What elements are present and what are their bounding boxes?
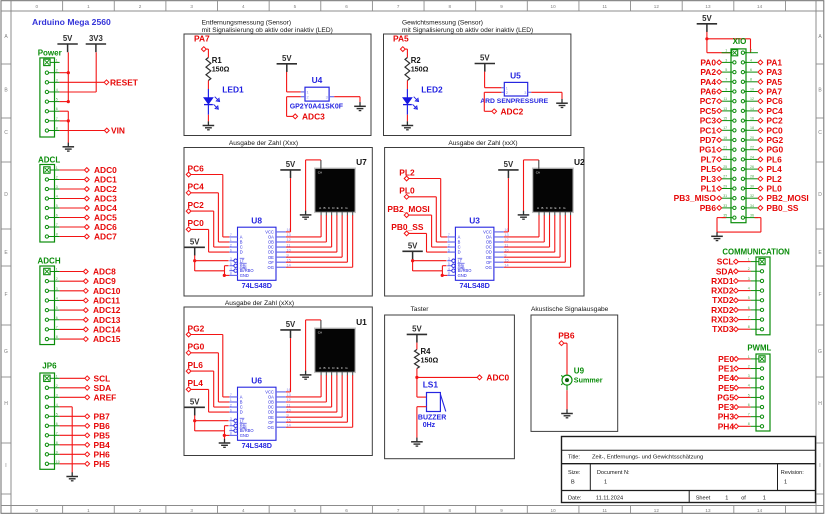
svg-text:13: 13 [723, 107, 727, 111]
node PL6 [758, 154, 782, 164]
wire node ADC11 [60, 299, 84, 301]
svg-text:PA1: PA1 [766, 57, 782, 67]
svg-text:5V: 5V [190, 397, 200, 406]
svg-text:5V: 5V [282, 54, 292, 63]
svg-text:PL0: PL0 [766, 184, 782, 194]
wire 3V3 to Power pin4 [60, 52, 97, 92]
svg-text:7: 7 [397, 508, 400, 513]
svg-text:5: 5 [725, 68, 727, 72]
svg-text:GND: GND [458, 273, 467, 278]
svg-text:6: 6 [230, 248, 232, 252]
wire U3 OD to U2 segment D [504, 215, 555, 252]
connector XIO pin 2 [741, 49, 758, 55]
svg-text:ADC6: ADC6 [94, 222, 117, 232]
connector ADCH pin 4 [45, 296, 59, 302]
connector XIO pin 18 [741, 126, 758, 132]
connector ADCH pin 2 [45, 277, 59, 283]
connector XIO pin 33 [722, 204, 736, 210]
svg-text:SCL: SCL [94, 373, 111, 383]
svg-text:11: 11 [602, 4, 607, 9]
ground (JP6) [66, 472, 78, 481]
svg-text:PC3: PC3 [700, 116, 717, 126]
wire node VIN [60, 130, 105, 132]
svg-text:PB2_MOSI: PB2_MOSI [766, 193, 808, 203]
svg-text:4: 4 [230, 427, 232, 431]
connector Power pin 4 [45, 88, 59, 94]
connector XIO pin 28 [741, 175, 758, 181]
wire U5 pin2 to ADC2 [484, 92, 501, 111]
junction U8 LT [193, 259, 196, 262]
wire JP6 pin4 to ground [60, 407, 73, 473]
svg-text:PL4: PL4 [188, 378, 204, 388]
svg-text:15: 15 [723, 117, 727, 121]
svg-text:3: 3 [56, 185, 58, 189]
svg-text:C: C [818, 130, 822, 136]
svg-text:2: 2 [56, 384, 58, 388]
wire LS1 bottom to ground [417, 407, 427, 438]
section heading Ausgabe der Zahl (xXx) [225, 300, 294, 307]
wire node ADC6 [60, 226, 85, 228]
connector XIO pin 34 [741, 204, 758, 210]
node PH4 (PWML) [718, 421, 739, 431]
svg-text:PG2: PG2 [188, 323, 205, 333]
connector ADCH pin 8 [45, 335, 59, 341]
connector COMMUNICATION pin 4 [748, 286, 764, 292]
power symbol 5V (U3 LT/RBI) [402, 241, 422, 259]
node PL2 [399, 167, 415, 181]
node PC1 [700, 125, 722, 135]
node PG0 [186, 342, 204, 356]
svg-text:TXD2: TXD2 [712, 295, 734, 305]
connector XIO pin 23 [722, 155, 736, 161]
connector JP6 pin 5 [45, 412, 59, 418]
svg-text:4: 4 [56, 88, 58, 92]
connector XIO pin 15 [722, 117, 736, 123]
svg-text:PE1: PE1 [718, 364, 734, 374]
svg-text:PL6: PL6 [188, 360, 204, 370]
wire U7 CA to ground [306, 160, 321, 211]
node ADC0 [84, 165, 117, 175]
node ADC2 [84, 184, 117, 194]
svg-text:1: 1 [725, 49, 727, 53]
wire node PB4 [60, 444, 85, 446]
svg-text:8: 8 [56, 335, 58, 339]
svg-text:R1: R1 [212, 56, 223, 65]
junction Power pin2 [67, 71, 70, 74]
ground (LED2) [402, 121, 414, 130]
svg-text:ADCH: ADCH [38, 257, 61, 266]
wire U1 CA to ground [306, 320, 321, 371]
connector ADCL pin 2 [45, 176, 59, 182]
svg-text:2: 2 [56, 277, 58, 281]
wire node PH6 [60, 453, 85, 455]
node ADC2 [492, 106, 524, 116]
node PC3 [700, 116, 722, 126]
svg-text:ADC3: ADC3 [302, 112, 325, 122]
wire node PH5 [60, 463, 85, 465]
node PB6 [558, 330, 575, 345]
svg-text:Ausgabe der Zahl (xXx): Ausgabe der Zahl (xXx) [225, 300, 294, 307]
wire Power pin6 [60, 110, 69, 112]
ground (U6) [219, 439, 231, 448]
svg-text:PC4: PC4 [188, 182, 205, 192]
node PC4 [758, 106, 783, 116]
svg-text:H: H [4, 401, 8, 407]
svg-text:PB0_SS: PB0_SS [766, 203, 799, 213]
7-segment display U7 [315, 157, 368, 215]
svg-text:8: 8 [56, 233, 58, 237]
node PB3_MISO [674, 193, 722, 203]
connector XIO pin 21 [722, 146, 736, 152]
svg-text:PC7: PC7 [700, 96, 717, 106]
svg-text:ADC8: ADC8 [93, 267, 116, 277]
connector JP6 [40, 362, 57, 470]
section box Akustische Signalausgabe [531, 315, 618, 431]
node RXD3 (COMMUNICATION) [711, 315, 738, 325]
svg-text:6: 6 [748, 403, 750, 407]
wire Power pin5 to 5V [60, 101, 69, 103]
svg-text:8: 8 [230, 432, 232, 436]
svg-text:PE5: PE5 [718, 383, 734, 393]
node PA5 [393, 34, 409, 52]
svg-text:74LS48D: 74LS48D [242, 441, 272, 450]
svg-text:PL2: PL2 [399, 167, 415, 177]
svg-text:F: F [341, 366, 343, 370]
svg-text:Arduino Mega 2560: Arduino Mega 2560 [32, 17, 111, 27]
svg-text:2: 2 [230, 403, 232, 407]
svg-text:2: 2 [748, 364, 750, 368]
wire U6 OE to U1 segment E [286, 375, 342, 417]
wire U6 OF to U1 segment F [286, 375, 348, 422]
svg-text:2: 2 [56, 69, 58, 73]
ground (LS1) [411, 438, 423, 447]
svg-text:PC1: PC1 [700, 125, 717, 135]
svg-text:B: B [571, 479, 575, 485]
node PA6 [700, 87, 721, 97]
wire R1 to LED1 [207, 81, 209, 90]
svg-text:BUZZER: BUZZER [418, 415, 446, 422]
svg-text:PB7: PB7 [94, 411, 111, 421]
connector JP6 pin 1 [44, 374, 60, 381]
connector ADCL pin 1 [44, 166, 60, 173]
connector Power pin 6 [45, 107, 59, 113]
connector XIO pin 7 [722, 78, 736, 84]
connector XIO pin 10 [741, 87, 758, 93]
svg-text:5: 5 [748, 393, 750, 397]
node PL7 [701, 154, 722, 164]
power symbol 5V (U6 LT/RBI) [185, 397, 205, 415]
svg-text:C: C [4, 130, 8, 136]
node SCL (COMMUNICATION) [717, 257, 739, 267]
wire node SDA (COMMUNICATION) [738, 270, 750, 272]
section heading Gewichtsmessung [402, 20, 533, 35]
svg-text:4: 4 [750, 58, 752, 62]
wire node PE0 (PWML) [739, 358, 751, 360]
connector XIO pin 1 [722, 49, 738, 56]
connector Power pin 2 [45, 69, 59, 75]
svg-text:PL7: PL7 [701, 154, 717, 164]
node PH3 (PWML) [718, 412, 739, 422]
svg-text:5: 5 [230, 422, 232, 426]
connector XIO pin 9 [722, 87, 736, 93]
node SDA [85, 383, 111, 393]
svg-text:PG2: PG2 [766, 135, 783, 145]
svg-text:ADC0: ADC0 [94, 165, 117, 175]
svg-text:74LS48D: 74LS48D [242, 281, 272, 290]
svg-text:32: 32 [750, 194, 754, 198]
svg-text:3: 3 [56, 393, 58, 397]
node VIN [104, 126, 125, 136]
connector PWML pin 2 [748, 364, 764, 370]
svg-text:14: 14 [757, 4, 763, 9]
svg-text:G: G [4, 349, 8, 355]
node SCL [85, 373, 110, 383]
wire U3 OB to U2 segment B [504, 215, 544, 242]
connector COMMUNICATION pin 6 [748, 306, 764, 312]
connector XIO pin 8 [741, 78, 758, 84]
svg-text:5: 5 [448, 262, 450, 266]
svg-text:D: D [4, 192, 8, 198]
node RXD2 (COMMUNICATION) [711, 305, 738, 315]
node PC2 [758, 116, 783, 126]
svg-text:GND: GND [240, 433, 249, 438]
node SDA (COMMUNICATION) [716, 266, 738, 276]
svg-text:PA0: PA0 [700, 57, 716, 67]
svg-text:PB4: PB4 [94, 440, 111, 450]
svg-text:RESET: RESET [110, 77, 139, 87]
U4 pin numbers [307, 91, 328, 100]
svg-text:3V3: 3V3 [89, 34, 104, 43]
svg-text:Size:: Size: [568, 470, 581, 476]
connector COMMUNICATION pin 7 [748, 315, 764, 321]
svg-text:PC0: PC0 [766, 125, 783, 135]
wire 5V to U3 RBI/BI [413, 266, 448, 276]
connector PWML pin 8 [748, 422, 764, 428]
node ADC4 [84, 203, 117, 213]
node ADC15 [83, 334, 120, 344]
power symbol 5V (U5) [475, 54, 495, 72]
connector XIO pin 16 [741, 117, 758, 123]
svg-text:Gewichtsmessung (Sensor): Gewichtsmessung (Sensor) [402, 20, 483, 27]
svg-text:ADC11: ADC11 [93, 295, 120, 305]
svg-text:SDA: SDA [716, 266, 734, 276]
wire U4 pin2 to ADC3 [287, 97, 301, 117]
node PE3 (PWML) [718, 402, 738, 412]
svg-text:E: E [337, 206, 339, 210]
node PE0 (PWML) [718, 354, 738, 364]
connector JP6 pin 8 [45, 441, 59, 447]
svg-text:U6: U6 [251, 376, 262, 386]
svg-text:E: E [555, 206, 557, 210]
svg-text:GND: GND [240, 273, 249, 278]
power symbol 3V3 (Power header) [86, 34, 106, 52]
wire U3 OE to U2 segment E [504, 215, 560, 257]
wire U9 to ground [566, 390, 568, 409]
svg-text:PL4: PL4 [766, 164, 782, 174]
svg-text:5V: 5V [63, 34, 73, 43]
wire U8 OE to U7 segment E [286, 215, 342, 257]
connector XIO pin 30 [741, 184, 758, 190]
svg-text:I: I [5, 463, 6, 469]
svg-text:PB2_MOSI: PB2_MOSI [387, 204, 429, 214]
svg-text:B: B [324, 206, 326, 210]
svg-text:20: 20 [750, 136, 754, 140]
node PC2 [186, 200, 204, 214]
node RXD2 (COMMUNICATION) [711, 286, 738, 296]
svg-text:GP2Y0A41SK0F: GP2Y0A41SK0F [290, 103, 344, 110]
connector COMMUNICATION pin 8 [748, 325, 764, 331]
wire node PE5 (PWML) [739, 387, 751, 389]
power symbol 5V (Taster) [407, 324, 427, 342]
svg-text:JP6: JP6 [42, 362, 57, 371]
connector Power [38, 49, 62, 138]
svg-text:PG1: PG1 [699, 145, 716, 155]
svg-text:PC4: PC4 [766, 106, 783, 116]
node PC0 [758, 125, 783, 135]
svg-text:PA6: PA6 [700, 87, 716, 97]
wire node ADC4 [60, 207, 85, 209]
svg-text:5: 5 [748, 296, 750, 300]
svg-text:13: 13 [705, 508, 711, 513]
buzzer U9 Summer [561, 367, 603, 391]
connector XIO pin 13 [722, 107, 736, 113]
connector XIO pin 17 [722, 126, 736, 132]
wire PB2_MOSI to U3 input C [409, 215, 447, 247]
connector ADCH pin 5 [45, 306, 59, 312]
svg-text:2: 2 [750, 49, 752, 53]
svg-text:1: 1 [506, 86, 508, 90]
svg-text:1: 1 [56, 374, 58, 378]
svg-text:ARD SENPRESSURE: ARD SENPRESSURE [480, 98, 548, 105]
svg-text:2: 2 [56, 176, 58, 180]
svg-text:8: 8 [230, 272, 232, 276]
wire R2 to LED2 [406, 81, 408, 90]
node PE4 (PWML) [718, 373, 738, 383]
connector ADCH pin 3 [45, 287, 59, 293]
wire node ADC9 [60, 280, 84, 282]
wire U4 pin3 to ground [334, 97, 360, 103]
wire node ADC7 [60, 236, 85, 238]
svg-text:PC6: PC6 [188, 163, 205, 173]
wire node RXD1 (COMMUNICATION) [738, 280, 750, 282]
svg-text:5V: 5V [286, 320, 296, 329]
svg-text:ADC5: ADC5 [94, 213, 117, 223]
wire U8 OB to U7 segment B [286, 215, 326, 242]
svg-text:3: 3 [56, 287, 58, 291]
svg-text:3: 3 [190, 4, 193, 9]
svg-text:AREF: AREF [94, 392, 117, 402]
connector JP6 pin 9 [45, 450, 59, 456]
connector XIO pin 27 [722, 175, 736, 181]
svg-text:ADC13: ADC13 [93, 315, 121, 325]
svg-text:OG: OG [268, 265, 274, 270]
ground (XIO) [711, 232, 723, 241]
svg-text:PB6: PB6 [558, 330, 575, 340]
node PB5 [85, 430, 110, 440]
wire PL0 to U3 input B [409, 197, 447, 242]
svg-text:6: 6 [345, 508, 348, 513]
wire PC2 to U8 input C [191, 211, 229, 247]
node PB0_SS [758, 203, 799, 213]
svg-text:6: 6 [748, 306, 750, 310]
wire node PB5 [60, 434, 85, 436]
node PG2 [758, 135, 784, 145]
node PG1 [699, 145, 721, 155]
junction U3 GND-row corner [441, 274, 444, 277]
svg-text:Power: Power [38, 49, 62, 58]
power symbol 5V (U4) [277, 54, 297, 72]
section box Ausgabe der Zahl (xxX) [385, 148, 584, 297]
svg-text:3: 3 [190, 508, 193, 513]
svg-text:Taster: Taster [411, 306, 430, 313]
svg-text:8: 8 [449, 508, 452, 513]
wire PB0_SS to U3 input D [409, 233, 447, 252]
svg-text:7: 7 [56, 117, 58, 121]
wire node SCL [60, 377, 85, 379]
svg-text:1: 1 [230, 398, 232, 402]
wire U8 OD to U7 segment D [286, 215, 337, 252]
junction Power pin5 [67, 100, 70, 103]
junction XIO 5V [705, 37, 708, 40]
svg-text:8: 8 [748, 422, 750, 426]
node PA0 [700, 57, 721, 67]
junction U8 GND-row corner [223, 274, 226, 277]
svg-text:Ausgabe der Zahl (Xxx): Ausgabe der Zahl (Xxx) [229, 140, 298, 147]
svg-text:3: 3 [56, 78, 58, 82]
svg-text:D: D [458, 250, 461, 255]
svg-text:F: F [559, 206, 561, 210]
svg-text:PG0: PG0 [188, 342, 205, 352]
svg-text:PL0: PL0 [399, 186, 415, 196]
svg-text:10: 10 [551, 4, 557, 9]
svg-text:F: F [4, 292, 7, 298]
connector XIO pin 12 [741, 97, 758, 103]
svg-text:PB0_SS: PB0_SS [391, 222, 424, 232]
svg-text:5: 5 [294, 4, 297, 9]
svg-text:1: 1 [763, 495, 766, 501]
wire node PH3 (PWML) [739, 416, 751, 418]
wire U3 OG to U2 segment G [504, 215, 571, 267]
svg-text:28: 28 [750, 175, 754, 179]
svg-text:8: 8 [750, 78, 752, 82]
svg-text:26: 26 [750, 165, 754, 169]
svg-text:150Ω: 150Ω [421, 356, 439, 365]
node ADC14 [83, 324, 120, 334]
connector ADCL pin 3 [45, 185, 59, 191]
svg-text:74LS48D: 74LS48D [460, 281, 490, 290]
svg-text:3: 3 [725, 58, 727, 62]
node ADC12 [83, 305, 120, 315]
connector XIO [731, 37, 746, 223]
svg-text:9: 9 [500, 508, 503, 513]
node PL3 [701, 174, 722, 184]
node ADC1 [84, 175, 117, 185]
title block [562, 437, 816, 503]
svg-text:PD7: PD7 [700, 135, 717, 145]
node ADC11 [83, 295, 120, 305]
svg-text:PH3: PH3 [718, 412, 735, 422]
connector COMMUNICATION pin 2 [748, 267, 764, 273]
connector JP6 pin 2 [45, 384, 59, 390]
svg-text:PA2: PA2 [700, 67, 716, 77]
svg-text:Ausgabe der Zahl (xxX): Ausgabe der Zahl (xxX) [448, 140, 517, 147]
connector XIO pin 32 [741, 194, 758, 200]
svg-text:8: 8 [56, 441, 58, 445]
svg-text:Zeit-, Entfernungs- und Gewich: Zeit-, Entfernungs- und Gewichtsschätzun… [592, 455, 703, 461]
svg-text:5V: 5V [412, 324, 422, 333]
wire node ADC2 [60, 188, 85, 190]
svg-text:3: 3 [748, 277, 750, 281]
